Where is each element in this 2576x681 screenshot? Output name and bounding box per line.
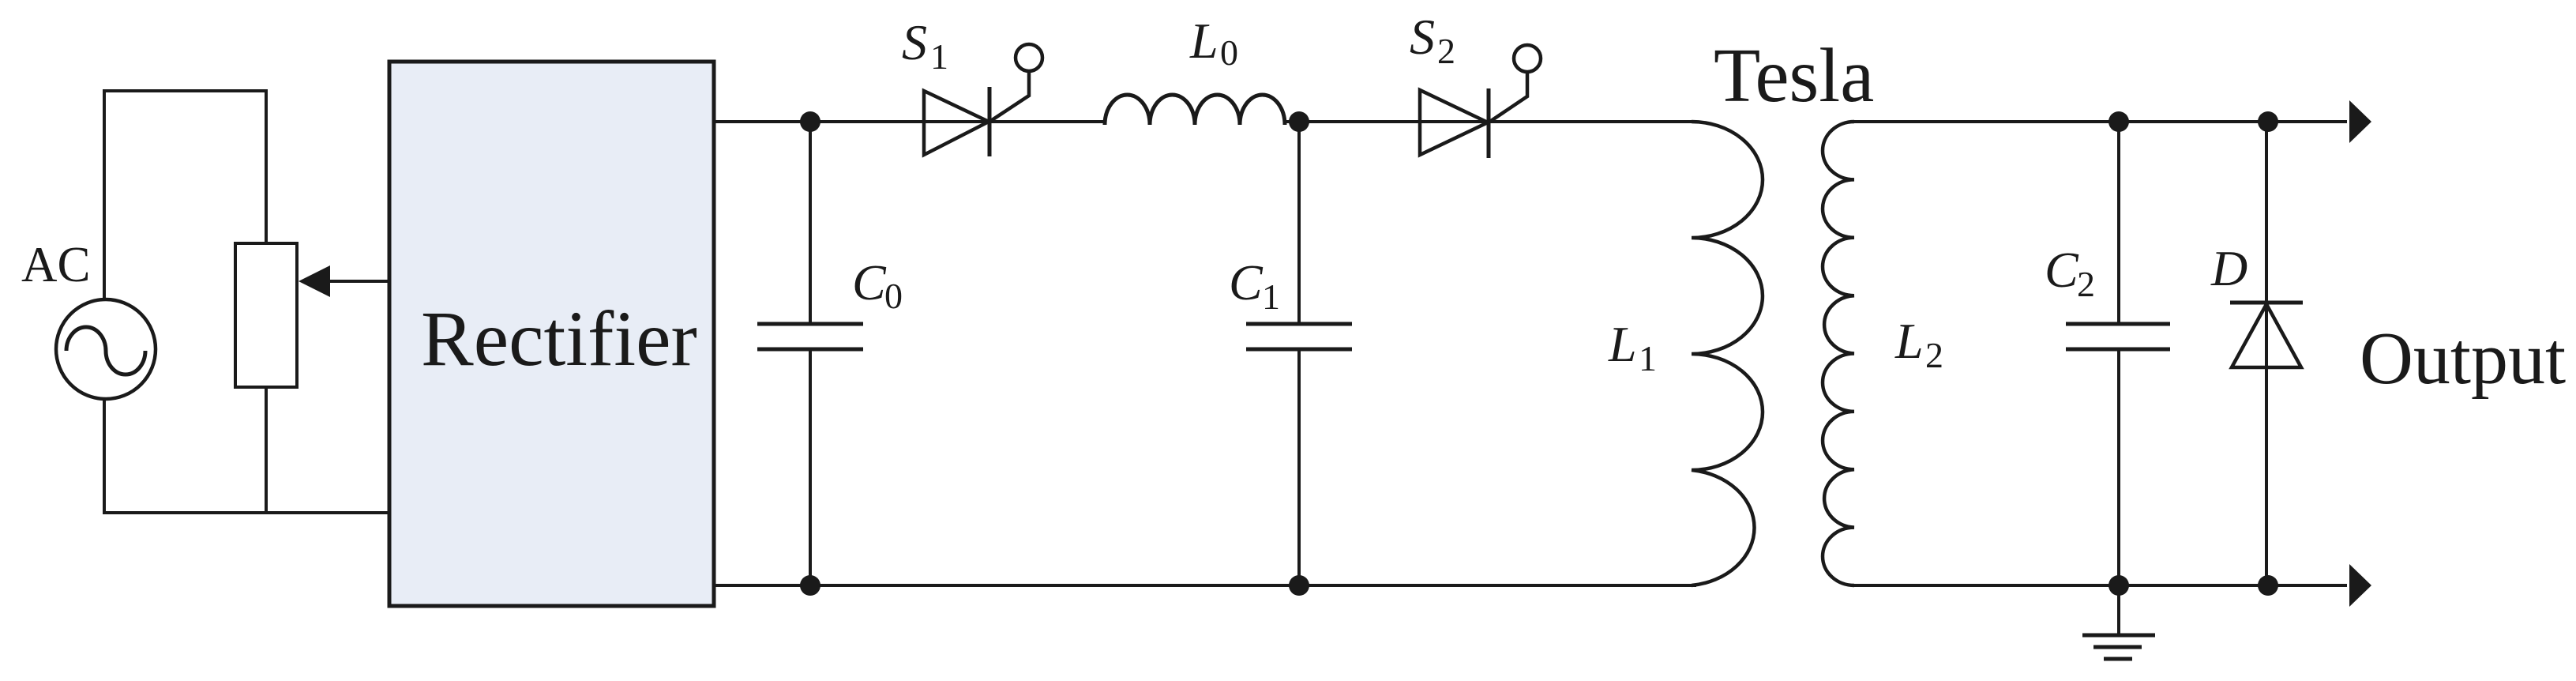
thyristor S1 gate lead: [989, 71, 1029, 122]
wire bottom right rail: [1853, 584, 2347, 587]
node dot C1 top: [1289, 111, 1309, 132]
thyristor S1 gate circle: [1016, 44, 1042, 71]
capacitor C2 lower lead: [2117, 349, 2120, 585]
svg-text:AC: AC: [21, 237, 91, 292]
wire bottom left: [103, 511, 390, 514]
output arrow bottom: [2349, 564, 2371, 607]
wire AC left vertical lower: [103, 398, 106, 514]
thyristor S2 gate circle: [1514, 45, 1541, 72]
transformer primary coil L1: [1692, 122, 1763, 585]
wiper arrowhead: [299, 265, 330, 297]
wire AC loop top: [103, 89, 268, 92]
wire L0 to L1: [1285, 120, 1696, 123]
svg-text:2: 2: [1437, 31, 1455, 71]
node dot C0 top: [800, 111, 820, 132]
node dot C2 bottom: [2108, 575, 2129, 596]
capacitor C0 lower lead: [809, 349, 812, 585]
diode D lead through: [2265, 122, 2268, 585]
svg-text:Tesla: Tesla: [1714, 33, 1874, 118]
svg-text:S: S: [902, 14, 927, 70]
wire top rail rectifier to L0: [715, 120, 1106, 123]
capacitor C1 upper lead: [1297, 122, 1301, 325]
svg-text:L: L: [1608, 316, 1637, 372]
thyristor S2 gate lead: [1489, 72, 1527, 122]
node dot D top: [2258, 111, 2278, 132]
svg-text:S: S: [1410, 9, 1435, 65]
wire potentiometer top: [265, 91, 268, 243]
inductor L0: [1105, 95, 1285, 125]
svg-text:C: C: [1229, 254, 1264, 310]
output arrow top: [2349, 100, 2371, 143]
thyristor S1 cathode bar: [988, 87, 992, 156]
ground bar 2: [2093, 645, 2142, 649]
svg-text:D: D: [2210, 240, 2247, 296]
thyristor S2 cathode bar: [1487, 88, 1491, 158]
svg-text:0: 0: [884, 276, 903, 316]
wire wiper arrow line: [327, 280, 390, 283]
svg-text:1: 1: [930, 36, 948, 77]
svg-text:C: C: [852, 254, 887, 310]
potentiometer (variac) rectangle: [235, 243, 297, 387]
svg-text:C: C: [2045, 242, 2079, 298]
ground bar 1: [2082, 634, 2155, 638]
svg-text:2: 2: [1925, 335, 1943, 375]
capacitor C2 upper lead: [2117, 122, 2120, 325]
capacitor C2 plates: [2066, 322, 2170, 326]
wire bottom rail rectifier to L1: [715, 584, 1696, 587]
AC source circle: [56, 299, 156, 399]
node dot C2 top: [2108, 111, 2129, 132]
ground stub: [2117, 585, 2120, 635]
AC sine wave: [66, 327, 145, 374]
thyristor S1 triangle: [924, 91, 989, 155]
diode D triangle: [2232, 304, 2301, 367]
capacitor C0 upper lead: [809, 122, 812, 325]
svg-text:1: 1: [1639, 338, 1657, 378]
node dot C1 bottom: [1289, 575, 1309, 596]
svg-text:2: 2: [2077, 264, 2095, 304]
wire potentiometer bottom: [265, 387, 268, 513]
capacitor C1 plates: [1246, 322, 1352, 326]
svg-text:0: 0: [1220, 32, 1238, 73]
rectifier block: [389, 62, 714, 606]
capacitor C0 plates: [757, 322, 863, 326]
wire AC left vertical upper: [103, 89, 106, 300]
svg-text:Rectifier: Rectifier: [421, 295, 697, 382]
ground bar 3: [2104, 657, 2132, 661]
node dot C0 bottom: [800, 575, 820, 596]
svg-text:L: L: [1894, 313, 1924, 369]
thyristor S2 triangle: [1420, 90, 1488, 155]
wire top right rail: [1853, 120, 2347, 123]
capacitor C1 lower lead: [1297, 349, 1301, 585]
svg-text:Output: Output: [2360, 318, 2566, 400]
diode D cathode bar: [2230, 301, 2303, 305]
transformer secondary coil L2: [1823, 122, 1854, 585]
svg-text:1: 1: [1262, 277, 1280, 317]
svg-text:L: L: [1189, 13, 1219, 69]
node dot D bottom: [2258, 575, 2278, 596]
